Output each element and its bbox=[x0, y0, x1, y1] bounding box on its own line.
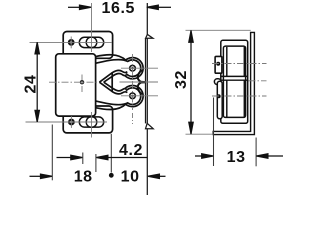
svg-text:24: 24 bbox=[22, 75, 39, 94]
svg-text:32: 32 bbox=[173, 70, 190, 89]
svg-text:18: 18 bbox=[74, 169, 93, 186]
svg-text:10: 10 bbox=[121, 169, 140, 186]
svg-text:16.5: 16.5 bbox=[102, 0, 136, 17]
svg-text:13: 13 bbox=[227, 149, 246, 166]
svg-text:4.2: 4.2 bbox=[119, 142, 143, 159]
